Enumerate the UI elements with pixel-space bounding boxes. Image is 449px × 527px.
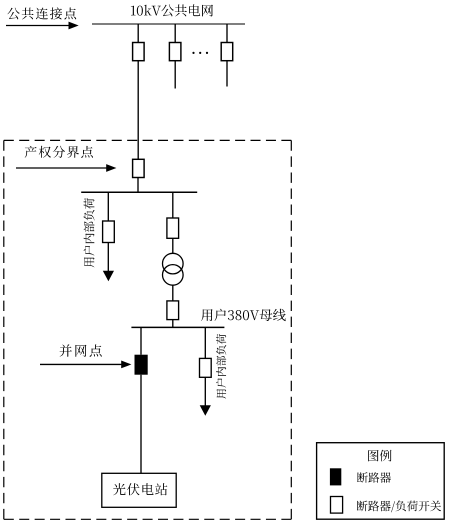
arrow: right internal load [200, 405, 211, 416]
label: 断路器/负荷开关 [357, 501, 441, 513]
legend symbol: breaker (filled) [330, 468, 341, 485]
switch box right load [200, 358, 212, 377]
wire: left load lower [107, 243, 109, 272]
label: 断路器 (breaker) [357, 472, 391, 483]
wire: feeder 2 upper [174, 24, 176, 43]
arrow: left internal load [103, 271, 114, 282]
label: 光伏电站 (PV station) [113, 483, 167, 495]
bus: 10kV public grid bus [92, 23, 245, 25]
label: 用户380V母线 [201, 309, 286, 321]
switch box above transformer [167, 218, 179, 238]
wire: feeder 1 lower (to demarcation breaker) [137, 61, 139, 160]
transformer T1 (two-winding) [163, 253, 184, 274]
wire: right load lower [204, 377, 206, 406]
wire: demarcation box to MV bus [137, 178, 139, 193]
arrow to PCC [6, 25, 70, 27]
wire: feeder 1 upper [137, 24, 139, 43]
wire: box to transformer [172, 238, 174, 253]
switch box left load [103, 221, 115, 243]
switch box feeder 1 [133, 43, 145, 61]
wire: 380V bus to grid-connection breaker [140, 327, 142, 354]
label: 并网点 (grid connection point) [60, 344, 102, 356]
breaker/switch box at demarcation [133, 159, 145, 177]
wire: feeder 3 upper [226, 24, 228, 43]
label: 公共连接点 (PCC) [7, 7, 76, 19]
wire: feeder 3 lower [226, 61, 228, 87]
bus: user MV bus [81, 191, 197, 193]
wire: transformer branch upper [172, 192, 174, 218]
switch box feeder 2 [169, 43, 181, 61]
wire: feeder 2 lower [174, 61, 176, 89]
ellipsis dots between feeders [192, 52, 194, 54]
box: PV station [102, 473, 176, 507]
label: 用户内部负荷 (right, vertical) [216, 334, 226, 399]
arrow to grid connection point [40, 363, 122, 365]
bus: user 380V bus [131, 326, 224, 328]
switch box feeder 3 [221, 43, 233, 61]
wire: lower box to 380V bus [172, 320, 174, 328]
arrow to demarcation point [16, 167, 107, 169]
label: 图例 (legend title) [368, 450, 391, 462]
wire: right load upper [204, 327, 206, 358]
wire: left load upper [107, 192, 109, 221]
label: 10kV公共电网 [131, 4, 213, 16]
dashed boundary box (user premises) [4, 140, 292, 519]
label: 用户内部负荷 (left, vertical) [84, 198, 95, 267]
label: 产权分界点 (property demarcation point) [25, 146, 93, 158]
legend box [317, 443, 445, 520]
wire: breaker to PV station box [140, 375, 142, 474]
wire: transformer to lower box [172, 285, 174, 301]
switch box below transformer [167, 301, 179, 320]
breaker at grid connection point (filled) [135, 355, 148, 375]
legend symbol: breaker/load switch (open) [331, 497, 343, 514]
